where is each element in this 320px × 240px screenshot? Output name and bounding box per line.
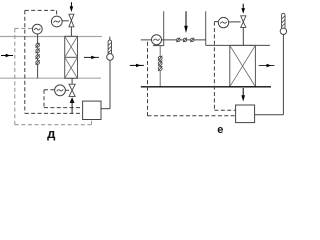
svg-text:д: д <box>47 126 56 141</box>
svg-text:е: е <box>217 124 223 136</box>
